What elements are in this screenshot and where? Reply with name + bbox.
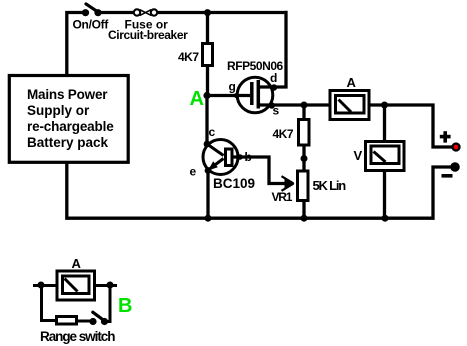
ammeter M1 (A) (330, 91, 369, 120)
svg-text:Range switch: Range switch (40, 329, 115, 344)
svg-text:5K Lin: 5K Lin (313, 178, 347, 193)
svg-text:c: c (209, 125, 216, 139)
range switch subcircuit wires (33, 286, 117, 322)
resistor R3 (range) (57, 317, 77, 325)
mosfet Q1 RFP50N06 (234, 77, 277, 113)
wire junction to R2 (302, 105, 305, 120)
svg-text:A: A (72, 256, 82, 271)
svg-text:Circuit-breaker: Circuit-breaker (108, 28, 188, 42)
wire node A down to collector (205, 96, 208, 145)
junction R2/VR1 (301, 155, 308, 162)
wire range resistor to switch dot (77, 320, 90, 323)
ammeter M3 (A, range) (57, 271, 95, 300)
svg-text:B: B (118, 295, 132, 317)
switch S2 (range) (89, 312, 108, 325)
voltmeter M2 (V) (366, 142, 405, 171)
junction right (range switch) (107, 282, 114, 289)
svg-text:Battery pack: Battery pack (27, 135, 109, 150)
junction source/R2 (301, 102, 308, 109)
switch S1 On/Off (82, 4, 102, 16)
wire voltmeter bottom to rail (383, 171, 386, 219)
fuse F1 circuit-breaker (134, 9, 157, 15)
wire switch to fuse (98, 11, 134, 14)
svg-text:V: V (354, 148, 363, 163)
wire VR1 bottom to rail (302, 201, 305, 219)
wire left drop to range resistor (42, 286, 57, 321)
svg-text:VR1: VR1 (272, 190, 293, 204)
wire battery bottom + bottom rail + minus terminal riser (67, 161, 451, 218)
plus terminal (440, 131, 460, 150)
wire left stub ammeter2 (33, 284, 57, 287)
svg-text:d: d (270, 71, 277, 85)
svg-text:s: s (273, 104, 280, 118)
wire right drop to switch (104, 286, 110, 322)
wire right stub ammeter2 (95, 284, 117, 287)
junction left (range switch) (38, 282, 45, 289)
wire gate lead from node A (207, 94, 250, 97)
svg-text:4K7: 4K7 (178, 50, 199, 64)
svg-text:A: A (190, 88, 204, 110)
svg-text:Supply or: Supply or (27, 103, 90, 118)
svg-text:e: e (190, 165, 197, 179)
wire R1 to node A (206, 67, 209, 96)
transistor Q2 BC109 (203, 140, 243, 175)
potentiometer VR1 5K Lin (298, 171, 309, 201)
wire junction down to voltmeter (383, 105, 386, 142)
wire top junction down to R1 (206, 13, 209, 44)
wire base lead to wiper (234, 157, 292, 184)
wire fuse to top-right corner and down to drain (157, 11, 286, 87)
wire ammeter right to plus terminal (369, 105, 452, 147)
junction VR1 bottom rail (301, 215, 308, 222)
resistor R2 4K7 (299, 120, 310, 146)
minus terminal (442, 162, 460, 177)
junction emitter rail (205, 215, 212, 222)
node A junction (203, 92, 210, 99)
svg-text:A: A (347, 75, 357, 90)
wire battery top to switch (67, 13, 84, 79)
junction top rail / R1 (204, 9, 211, 16)
svg-text:g: g (229, 80, 236, 94)
svg-text:re-chargeable: re-chargeable (27, 119, 114, 134)
wiper arrow of VR1 (282, 176, 295, 191)
svg-text:BC109: BC109 (213, 176, 255, 191)
svg-text:On/Off: On/Off (73, 18, 110, 32)
junction ammeter/voltmeter (381, 102, 388, 109)
wire source to ammeter (258, 103, 330, 106)
svg-text:Mains Power: Mains Power (27, 87, 108, 102)
svg-text:b: b (245, 150, 252, 164)
wire emitter down to bottom rail (206, 171, 209, 219)
wire R2 to VR1 (302, 145, 305, 171)
resistor R1 4K7 (203, 44, 213, 66)
junction voltmeter rail (382, 215, 389, 222)
svg-text:4K7: 4K7 (273, 127, 294, 141)
battery box: Mains Power Supply (9, 76, 128, 163)
